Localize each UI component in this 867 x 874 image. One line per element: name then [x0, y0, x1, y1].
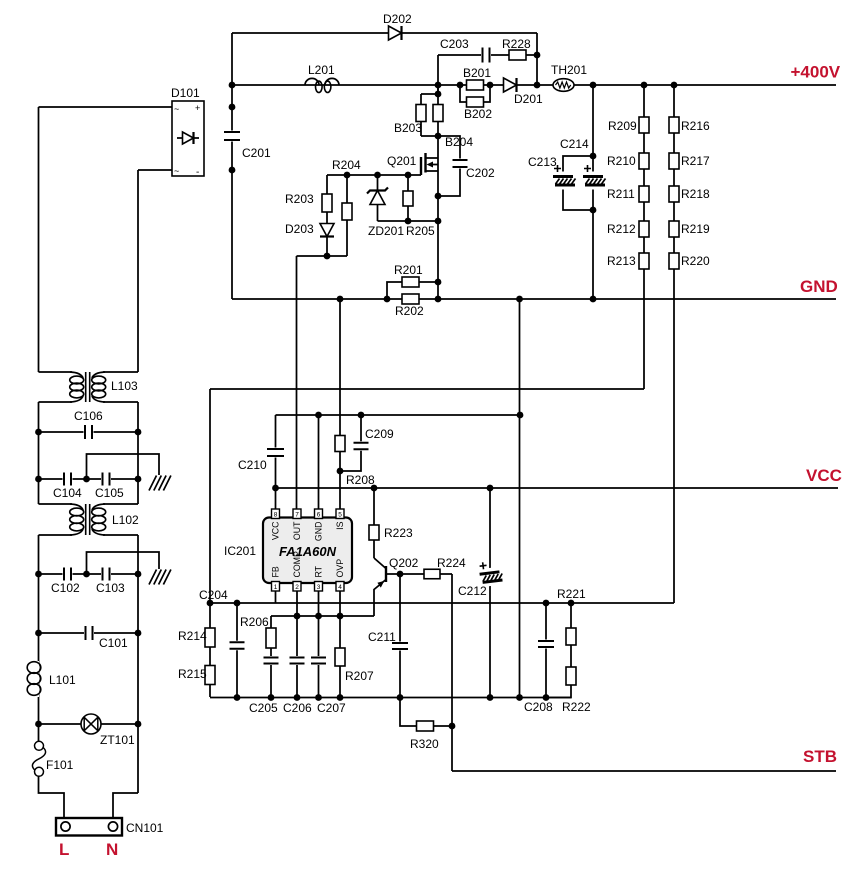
svg-text:R217: R217: [681, 154, 710, 168]
svg-text:R216: R216: [681, 119, 710, 133]
svg-text:~: ~: [174, 104, 179, 114]
svg-text:L: L: [59, 840, 69, 859]
svg-text:B201: B201: [463, 66, 491, 80]
svg-text:R201: R201: [394, 263, 423, 277]
svg-text:R205: R205: [406, 224, 435, 238]
svg-text:C211: C211: [368, 630, 396, 644]
svg-text:C205: C205: [249, 701, 278, 715]
svg-text:F101: F101: [46, 758, 74, 772]
svg-text:C102: C102: [51, 581, 80, 595]
svg-text:ZD201: ZD201: [368, 224, 404, 238]
svg-text:C213: C213: [528, 155, 557, 169]
svg-text:Q201: Q201: [387, 154, 417, 168]
svg-text:C207: C207: [317, 701, 346, 715]
svg-text:C105: C105: [95, 486, 124, 500]
svg-text:C208: C208: [524, 700, 553, 714]
svg-text:OUT: OUT: [292, 521, 302, 540]
svg-text:C204: C204: [199, 588, 228, 602]
svg-text:R214: R214: [178, 629, 207, 643]
svg-text:FA1A60N: FA1A60N: [279, 544, 337, 559]
svg-text:3: 3: [317, 584, 321, 591]
svg-text:R215: R215: [178, 667, 207, 681]
svg-text:R220: R220: [681, 254, 710, 268]
svg-text:L102: L102: [112, 513, 139, 527]
svg-text:RT: RT: [314, 565, 324, 577]
svg-text:D202: D202: [383, 12, 412, 26]
svg-text:-: -: [196, 167, 199, 178]
svg-text:N: N: [106, 840, 118, 859]
svg-text:4: 4: [338, 584, 342, 591]
svg-text:C202: C202: [466, 166, 495, 180]
svg-text:7: 7: [295, 512, 299, 519]
svg-text:1: 1: [274, 584, 278, 591]
svg-text:D201: D201: [514, 92, 543, 106]
svg-text:VCC: VCC: [806, 466, 842, 485]
svg-text:L103: L103: [111, 379, 138, 393]
svg-text:OVP: OVP: [335, 559, 345, 578]
svg-text:C210: C210: [238, 458, 267, 472]
svg-text:R221: R221: [557, 587, 586, 601]
svg-text:R207: R207: [345, 669, 374, 683]
svg-text:6: 6: [317, 512, 321, 519]
svg-text:R228: R228: [502, 37, 531, 51]
svg-text:C201: C201: [242, 146, 271, 160]
svg-text:C206: C206: [283, 701, 312, 715]
svg-text:D203: D203: [285, 222, 314, 236]
svg-text:IS: IS: [335, 521, 345, 529]
svg-text:R204: R204: [332, 158, 361, 172]
svg-text:ZT101: ZT101: [100, 733, 135, 747]
svg-text:R202: R202: [395, 304, 424, 318]
svg-text:5: 5: [338, 512, 342, 519]
svg-text:L201: L201: [308, 63, 335, 77]
svg-text:C104: C104: [53, 486, 82, 500]
svg-text:+: +: [195, 103, 200, 113]
svg-text:+400V: +400V: [791, 63, 841, 82]
svg-text:R206: R206: [240, 615, 269, 629]
svg-text:8: 8: [274, 512, 278, 519]
svg-text:R203: R203: [285, 192, 314, 206]
svg-text:B202: B202: [464, 107, 492, 121]
svg-text:C203: C203: [440, 37, 469, 51]
svg-text:R213: R213: [607, 254, 636, 268]
svg-text:R219: R219: [681, 222, 710, 236]
svg-text:R222: R222: [562, 700, 591, 714]
svg-text:C103: C103: [96, 581, 125, 595]
svg-text:C101: C101: [99, 636, 128, 650]
svg-text:STB: STB: [803, 747, 837, 766]
svg-text:CN101: CN101: [126, 821, 164, 835]
svg-text:GND: GND: [314, 522, 324, 542]
svg-text:C209: C209: [365, 427, 394, 441]
svg-text:C106: C106: [74, 409, 103, 423]
svg-text:R211: R211: [607, 187, 635, 201]
svg-text:B204: B204: [445, 135, 473, 149]
svg-text:R208: R208: [346, 473, 375, 487]
svg-text:B203: B203: [394, 121, 422, 135]
svg-text:R218: R218: [681, 187, 710, 201]
svg-text:L101: L101: [49, 673, 76, 687]
svg-text:R223: R223: [384, 526, 413, 540]
svg-text:VCC: VCC: [271, 521, 281, 540]
svg-text:R212: R212: [607, 222, 636, 236]
svg-text:Q202: Q202: [389, 556, 419, 570]
svg-text:C212: C212: [458, 584, 487, 598]
svg-text:R224: R224: [437, 556, 466, 570]
svg-text:R210: R210: [607, 154, 636, 168]
svg-text:D101: D101: [171, 86, 200, 100]
svg-text:TH201: TH201: [551, 63, 587, 77]
svg-text:2: 2: [295, 584, 299, 591]
svg-text:R320: R320: [410, 737, 439, 751]
svg-text:IC201: IC201: [224, 544, 256, 558]
svg-text:R209: R209: [608, 119, 637, 133]
svg-text:FB: FB: [271, 566, 281, 577]
svg-text:GND: GND: [800, 277, 838, 296]
svg-text:~: ~: [174, 166, 179, 176]
svg-text:C214: C214: [560, 137, 589, 151]
